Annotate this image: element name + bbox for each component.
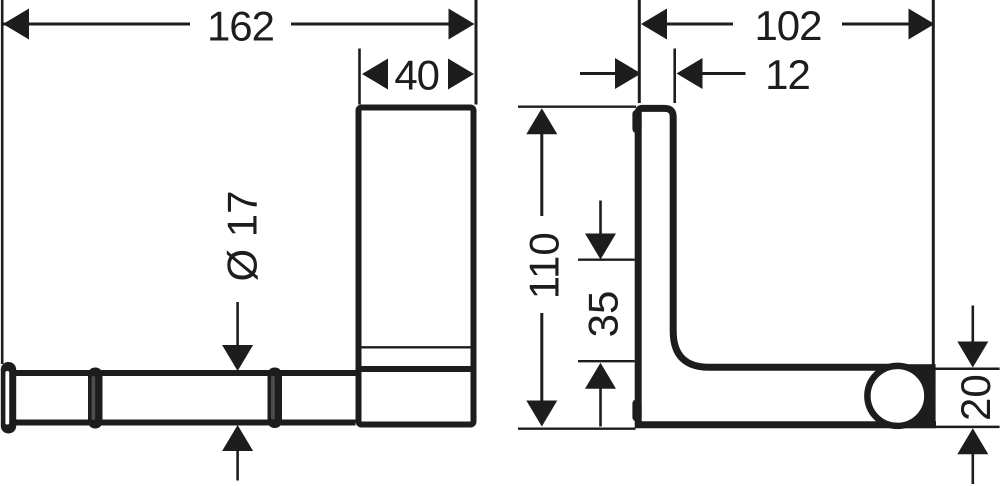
extension line bottom of 20 xyxy=(936,426,1000,429)
extension line right of 162/40 xyxy=(475,0,478,105)
svg-text:102: 102 xyxy=(754,2,821,49)
dimension 12 right arrow xyxy=(677,58,703,89)
dimension 102 left arrow xyxy=(641,9,667,40)
bar ring B xyxy=(268,368,283,429)
extension line bottom of 35 xyxy=(578,360,635,362)
side view L profile xyxy=(638,108,936,424)
extension line left of 102 xyxy=(638,0,641,103)
side plate bottom bump xyxy=(632,399,641,421)
extension line top of 35 xyxy=(578,259,635,261)
extension line left of 40 xyxy=(358,49,361,105)
svg-text:12: 12 xyxy=(765,51,810,98)
dimension 162 line left part xyxy=(3,23,190,26)
roll bar top edge xyxy=(10,370,356,376)
svg-text:162: 162 xyxy=(207,3,274,50)
svg-text:20: 20 xyxy=(952,374,999,421)
dimension 40 left arrow xyxy=(362,59,388,90)
extension line left of 162 xyxy=(1,0,4,364)
wall plate front view xyxy=(359,108,474,425)
extension line right of 102 xyxy=(932,0,935,368)
dimension 110 up arrow xyxy=(526,108,557,216)
dimension 102 line left part xyxy=(666,23,734,26)
dimension 20 top arrow xyxy=(957,306,988,368)
roll pin circle xyxy=(867,366,927,426)
svg-text:Ø 17: Ø 17 xyxy=(219,190,266,281)
dimension 35 up arrow xyxy=(585,363,616,427)
extension line bottom of 110 xyxy=(518,428,636,430)
dia 17 top arrow xyxy=(222,302,253,371)
arm right end fill xyxy=(897,364,936,428)
svg-text:35: 35 xyxy=(580,291,627,338)
dimension 162 left arrow xyxy=(3,9,29,40)
side plate top bump xyxy=(632,110,641,133)
plate arm top thick line xyxy=(362,366,471,372)
dimension 40 right arrow xyxy=(448,59,474,90)
dimension 162 line right part xyxy=(291,23,451,26)
dimension 102 right arrow xyxy=(909,9,935,40)
svg-text:40: 40 xyxy=(394,51,439,98)
bar end cap xyxy=(1,362,16,434)
dimension 162 right arrow xyxy=(449,9,475,40)
extension line top of 110 xyxy=(518,105,636,107)
dimension 35 down arrow xyxy=(585,201,616,260)
dimension 12 right line xyxy=(701,72,746,75)
dimension 102 line right part xyxy=(842,23,910,26)
roll bar bottom edge xyxy=(10,420,356,426)
extension line right of 12 xyxy=(673,49,676,104)
plate seam thin line xyxy=(362,346,471,348)
svg-text:110: 110 xyxy=(521,232,568,299)
dimension 12 left line xyxy=(580,72,616,75)
dia 17 bottom arrow xyxy=(222,425,253,481)
dimension 12 left arrow xyxy=(615,58,641,89)
extension line top of 20 xyxy=(931,368,1000,371)
dimension 110 down arrow xyxy=(526,313,557,427)
bar ring A xyxy=(88,368,103,429)
dimension 20 bottom arrow xyxy=(957,428,988,484)
